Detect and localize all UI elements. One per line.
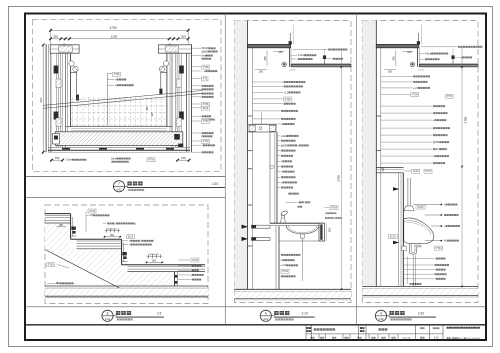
svg-text:250: 250 [181,35,186,39]
svg-text:4: 4 [380,312,382,316]
step 2 slab [71,238,122,240]
under counter callouts [279,254,281,256]
svg-text:PT2: PT2 [203,78,208,81]
floor slab hatch [362,288,478,295]
furred wall face [397,173,399,286]
svg-text:1/10: 1/10 [418,311,424,315]
bottom note middle [111,157,131,160]
right detail circles [163,61,168,66]
step 1 slab [45,213,71,215]
urinal body [404,218,434,244]
lower ceiling board [291,62,351,64]
right top cap [158,45,191,53]
svg-text:250: 250 [59,224,64,227]
D wall face lines [375,21,377,287]
svg-text:6L/35: 6L/35 [390,236,396,238]
bottom row dividers [318,334,320,341]
left bottom note [56,282,74,285]
hanger rod above slab [289,33,291,44]
svg-text:PT04: PT04 [285,98,291,101]
floor slab hatch [235,291,352,298]
D wall callouts [381,75,413,77]
svg-text:250: 250 [152,259,157,262]
title block vertical dividers [305,325,307,341]
cabinet face below counter [275,226,277,289]
left mirror clamp [76,95,79,101]
svg-text:Ca.#6: Ca.#6 [418,69,424,71]
D height dim 2780 [461,48,463,286]
svg-text:PT03: PT03 [192,259,198,262]
left vertical dim [42,45,44,152]
svg-text:PT04: PT04 [331,206,337,209]
svg-text:7: 7 [118,182,120,186]
svg-text:4: 4 [265,312,267,316]
ceiling slab bar [248,44,291,47]
svg-text:5L04: 5L04 [413,170,419,173]
C callout rows [252,81,283,83]
D wall hatch strip [362,21,376,287]
left callout PT03 [47,263,55,267]
wall bracket below urinal [402,246,406,251]
step dims group 1 [106,229,108,233]
slab underside lines [48,146,190,148]
panel C dashed frame [235,21,352,303]
C height dim 2780 [340,48,342,289]
svg-text:2780: 2780 [463,116,467,123]
anchor arrows [393,187,400,190]
landing closure face [174,272,176,286]
svg-text:PT04: PT04 [282,270,288,273]
stacked header cells [307,327,312,329]
rule under panel A [25,176,225,178]
svg-text:6L/35: 6L/35 [418,207,424,209]
dim 300 [388,71,393,74]
svg-text:Ca.#6: Ca.#6 [290,69,296,71]
hanger rod above slab [417,33,419,44]
svg-text:@600: @600 [281,144,288,147]
left pilaster blocks [54,66,59,74]
svg-text:300: 300 [259,71,264,74]
svg-text:PT04: PT04 [436,247,442,250]
svg-text:1:5: 1:5 [157,311,162,315]
svg-text:100: 100 [278,51,283,54]
slab left end details [53,134,60,145]
svg-text:3-02: 3-02 [378,317,384,321]
left top cap [50,45,79,53]
sloped soffit line [45,250,128,293]
floor line [235,288,352,290]
svg-text:0755-1234567: 0755-1234567 [466,338,481,340]
sheet name [378,328,387,330]
svg-text:50 50 8 5: 50 50 8 5 [149,254,159,256]
top callout leader [85,212,87,233]
counter slab top edge [66,126,173,128]
C wall hatch strip [235,21,248,290]
column divider right [356,14,358,325]
svg-text:PT04: PT04 [203,140,209,143]
counter top [270,222,325,224]
svg-text:2024.06: 2024.06 [402,338,411,340]
lower ceiling board [419,62,478,64]
top small dim [56,226,66,228]
ceiling hanger right [324,56,326,64]
bottom note left [66,159,86,162]
D wall joint marks [376,115,381,117]
svg-text:@300: @300 [202,50,209,53]
plinth dark dashes [62,148,70,150]
svg-text:1:10: 1:10 [302,311,308,315]
svg-text:PT05: PT05 [203,66,209,69]
svg-text:PT06: PT06 [203,103,209,106]
svg-text:50 50 8 5: 50 50 8 5 [107,228,117,230]
title block mid rule [306,333,443,335]
ceiling hanger right [452,56,454,64]
svg-text:450: 450 [264,56,267,61]
right pilaster blocks [179,66,184,74]
valve label left [388,235,397,239]
landing slab [122,264,205,266]
dim line 250/1200/250 [51,38,189,40]
basin drain [301,234,305,238]
hidden niche dashed grid [72,97,74,126]
signature row [310,337,314,339]
half wall cap [376,167,403,169]
bulkhead face [417,48,419,67]
title of panel D [375,310,436,321]
right step profile [161,72,167,88]
svg-text:PT03: PT03 [89,210,95,213]
right pilaster body [190,44,192,152]
svg-text:+1.5: +1.5 [281,264,286,267]
svg-text:→+: →+ [202,70,206,73]
slab right end details [174,134,180,140]
bottom dim 700 left [51,159,62,161]
svg-text:280: 280 [146,106,149,111]
step 1 nosing [70,214,72,240]
svg-text:PT03: PT03 [48,264,54,267]
title block top rule [25,324,486,326]
svg-text:120: 120 [151,112,154,117]
faucet [280,210,288,216]
svg-text:8: 8 [107,312,109,316]
downlight symbol [282,62,287,67]
step 2 nosing [121,239,123,265]
C ceiling labels [293,48,328,50]
svg-text:700: 700 [55,156,60,160]
D ceiling labels [421,46,458,48]
svg-text:PT04: PT04 [425,170,431,173]
column divider left [224,14,226,325]
dim extension lines [50,28,52,44]
counter fascia [319,223,325,241]
C wall face lines [247,21,249,290]
svg-text:250: 250 [110,234,115,237]
right mirror clamp [159,89,162,95]
svg-text:900: 900 [39,97,43,102]
svg-text:3-02: 3-02 [105,317,111,321]
counter slab hatched body [55,132,183,146]
dim 450 vertical [395,51,397,67]
panel D dashed frame [362,21,478,303]
right callout column [191,258,199,262]
D bottom callouts [403,258,434,260]
base floor hatch band [45,288,208,296]
svg-text:PT04: PT04 [412,93,418,96]
mirror cabinet box [248,125,277,133]
dim 100 [274,50,285,52]
panel A dashed frame [32,19,221,171]
left step profile [71,72,77,94]
left pilaster body [45,44,47,152]
svg-text:PT04: PT04 [148,159,154,162]
svg-text:600: 600 [329,227,332,232]
step dims group 2 [148,254,150,258]
bulkhead face [288,48,290,67]
mid callouts [107,222,136,225]
project name [314,328,335,330]
svg-text:+1.5: +1.5 [413,87,418,90]
flush pipe [407,178,409,206]
support brackets [252,225,271,228]
sheet kind / number [420,327,424,329]
dim 300 [259,71,264,74]
vanity face lines [269,132,271,223]
stair concrete mass [45,223,175,286]
svg-text:3-02: 3-02 [434,338,439,340]
svg-text:2780: 2780 [337,175,341,182]
right callout column [191,47,201,49]
base floor lines [45,285,208,287]
left detail circles [69,61,74,66]
company cell [447,327,480,329]
svg-text:PT03: PT03 [203,120,209,123]
floor line [362,285,478,287]
downlight symbol [410,62,415,67]
wall joint marks [248,115,253,117]
basin bowl [286,225,319,234]
urinal leaders [416,205,425,209]
svg-text:100: 100 [407,51,412,54]
dim 100 [402,50,413,52]
bottom dim 700 right [178,159,190,161]
svg-text:5L03: 5L03 [128,236,134,239]
title of panel A [113,181,225,192]
svg-text:PT06: PT06 [114,73,120,76]
svg-text:@600: @600 [433,141,440,144]
centre callouts [107,74,109,126]
svg-text:300: 300 [388,71,393,74]
dim line 1700 overall [51,29,189,31]
dim 450 vertical [266,51,268,67]
title of panel C [260,310,314,321]
ceiling slab bar [376,44,419,47]
drain pipe to floor [412,255,414,287]
horizontal rule above bottom titles [25,306,486,308]
urinal trap [410,244,422,254]
svg-text:1/10: 1/10 [212,182,218,186]
svg-text:450: 450 [393,56,396,61]
title of panel B [102,310,164,321]
svg-text:700: 700 [181,156,186,160]
svg-text:5L05: 5L05 [203,107,209,110]
panel B dashed frame [45,205,208,304]
svg-text:250: 250 [53,35,58,39]
svg-text:1200: 1200 [111,35,118,39]
svg-text:PT03: PT03 [447,96,453,98]
svg-text:3-02: 3-02 [263,317,269,321]
svg-text:1700: 1700 [109,26,116,30]
mirror glass section lines [43,90,203,105]
svg-text:+1.5: +1.5 [284,91,289,94]
rule under panel A title [25,196,225,198]
svg-text:3-02: 3-02 [116,188,122,192]
